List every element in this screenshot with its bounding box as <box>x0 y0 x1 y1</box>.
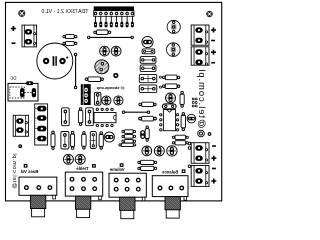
resistor R11 <box>121 139 136 143</box>
resistor R15 <box>137 166 157 170</box>
potentiometer VR2 Treble <box>65 164 102 218</box>
resistor R20 <box>172 141 189 145</box>
pad P7 <box>188 142 191 149</box>
capacitor C13 <box>154 146 164 156</box>
capacitor C3 <box>111 46 121 56</box>
label - (X3) <box>211 62 215 64</box>
capacitor C16 <box>75 154 85 164</box>
resistor R17 <box>162 84 180 89</box>
resistor R14 <box>137 160 157 164</box>
label - (X4) <box>212 145 216 147</box>
resistor R5 <box>78 107 82 126</box>
capacitor C10 <box>104 132 114 142</box>
op-amp U3 (DIP-8) <box>159 110 179 132</box>
capacitor C12 <box>142 146 152 156</box>
terminal block X5 <box>191 166 209 187</box>
svg-text:DC: DC <box>9 76 16 81</box>
capacitor C14 <box>167 146 177 156</box>
capacitor C15 <box>63 154 73 164</box>
terminal block X6 <box>13 115 28 136</box>
resistor R13 <box>145 126 149 142</box>
capacitor C11 <box>140 130 145 139</box>
pad grid P4 <box>192 98 198 108</box>
terminal block X1 (power) <box>22 25 37 47</box>
connector J3 (inputs) <box>35 104 48 145</box>
inductor L1 <box>162 104 176 109</box>
capacitor C19 <box>139 74 157 82</box>
pad P3 <box>159 86 162 89</box>
pad P6 <box>208 132 212 136</box>
wire jumper W1 <box>87 36 134 39</box>
transistor Q3 <box>167 43 181 57</box>
label + (X4) <box>211 156 216 161</box>
pad P5 <box>198 130 205 137</box>
label + (X5) <box>211 179 216 184</box>
label DC <box>9 76 16 81</box>
op-amp U1 (DIP-8) <box>94 108 116 127</box>
transistor Q2 <box>167 20 180 33</box>
capacitor C22 <box>166 93 176 103</box>
resistor R19 <box>172 135 189 139</box>
wire jumper W2 <box>74 53 77 89</box>
resistor R23 <box>138 102 156 106</box>
label + (X3) <box>211 50 216 55</box>
svg-text:@tel.com.pl: @tel.com.pl <box>11 153 17 189</box>
capacitor C20 <box>139 85 157 93</box>
svg-text:@ sbonqa-onp: @ sbonqa-onp <box>96 85 124 90</box>
pad P1 <box>113 73 118 78</box>
resistor R7 <box>82 131 86 149</box>
svg-text:Treble: Treble <box>76 166 89 171</box>
annotation text <box>96 85 124 90</box>
capacitor C21 <box>138 116 157 121</box>
resistor R8 <box>99 131 103 150</box>
capacitor C18 <box>142 49 155 54</box>
resistor R2 <box>62 35 77 39</box>
mounting hole H2 <box>206 10 213 17</box>
wire W3 <box>122 111 150 114</box>
resistor R3 <box>62 41 77 45</box>
resistor R22 <box>181 112 185 131</box>
potentiometer VR3 Volume <box>109 163 146 218</box>
svg-text:Volume: Volume <box>109 167 124 172</box>
label - (X5) <box>212 168 216 170</box>
potentiometer VR1 Bass Vol <box>19 164 57 217</box>
title text TDA73XX 2.1 - V1.0 <box>41 9 88 15</box>
DC jack J2 <box>8 81 38 101</box>
url text right <box>197 68 208 128</box>
regulator U2 (TO-220) <box>81 84 91 105</box>
diode D3 <box>140 65 156 72</box>
resistor R9 <box>121 130 136 134</box>
pad P9 <box>18 144 22 148</box>
svg-text:TDA73XX 2.1 - V1.0: TDA73XX 2.1 - V1.0 <box>41 9 88 15</box>
capacitor C7 <box>86 108 94 126</box>
pad P8 <box>188 165 191 168</box>
capacitor C5 <box>114 96 123 105</box>
label + (X2) <box>211 28 216 33</box>
capacitor C4 <box>102 96 111 105</box>
url text left <box>11 153 17 189</box>
transistor Q1 <box>95 60 109 74</box>
terminal block X3 <box>191 47 209 65</box>
PCB board outline <box>6 2 222 201</box>
capacitor C1 (main filter) <box>37 43 73 79</box>
resistor R1 <box>93 30 111 35</box>
potentiometer VR4 Balance <box>152 169 188 218</box>
diode D1 <box>94 92 101 105</box>
resistor R16 <box>162 75 180 80</box>
resistor R6 <box>71 131 75 150</box>
resistor R18 <box>180 91 184 108</box>
capacitor C6 <box>62 108 70 126</box>
connector J1 pins <box>94 16 134 27</box>
mounting hole H1 <box>18 9 26 17</box>
svg-text:@tel.com.pl: @tel.com.pl <box>197 68 208 128</box>
resistor R21 <box>51 131 55 150</box>
terminal block X2 <box>191 25 209 45</box>
capacitor C17 <box>142 36 153 47</box>
resistor R4 <box>85 77 104 82</box>
capacitor C2 <box>100 46 110 56</box>
capacitor C9 <box>90 132 96 149</box>
terminal block X4 <box>191 143 209 164</box>
label - (X1) <box>12 42 16 44</box>
svg-text:Balance: Balance <box>161 169 178 174</box>
capacitor C23 <box>187 114 196 123</box>
diode D2 <box>140 57 156 64</box>
label - (X2) <box>211 40 215 42</box>
resistor R10 <box>121 135 136 139</box>
label + (X1) <box>11 26 16 31</box>
pad P2 <box>159 76 162 79</box>
capacitor C8 <box>61 132 69 150</box>
svg-text:Bass Vol: Bass Vol <box>21 169 38 174</box>
resistor R12 <box>118 143 136 146</box>
connector J1 header <box>94 6 134 16</box>
